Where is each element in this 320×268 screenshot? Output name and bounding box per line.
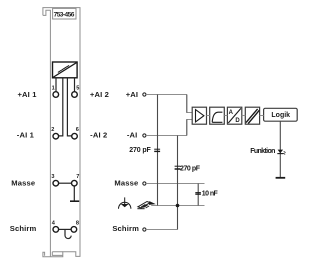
svg-text:+AI 1: +AI 1 [17,90,37,99]
svg-text:753-456: 753-456 [54,11,75,18]
svg-text:Masse: Masse [11,178,35,187]
svg-text:Schirm: Schirm [112,224,139,233]
svg-text:Masse: Masse [114,178,138,187]
svg-text:-AI: -AI [127,131,138,140]
svg-text:270 pF: 270 pF [129,147,151,154]
svg-text:8: 8 [76,220,79,226]
svg-text:10 nF: 10 nF [202,191,219,198]
svg-text:3: 3 [51,174,54,180]
svg-text:2: 2 [51,127,54,133]
svg-text:+AI 2: +AI 2 [90,90,109,99]
svg-text:Schirm: Schirm [10,224,37,233]
svg-text:+AI: +AI [126,90,138,99]
svg-text:7: 7 [76,174,79,180]
svg-text:Funktion: Funktion [250,148,275,155]
svg-text:6: 6 [76,127,79,133]
svg-text:4: 4 [52,220,56,226]
svg-text:D: D [235,118,240,124]
svg-text:-AI 2: -AI 2 [90,131,107,140]
svg-text:270 pF: 270 pF [180,166,201,173]
svg-text:5: 5 [76,85,79,91]
svg-text:1: 1 [52,85,55,91]
svg-text:-AI 1: -AI 1 [17,131,35,140]
svg-text:A: A [229,110,234,116]
svg-text:Logik: Logik [271,112,290,119]
